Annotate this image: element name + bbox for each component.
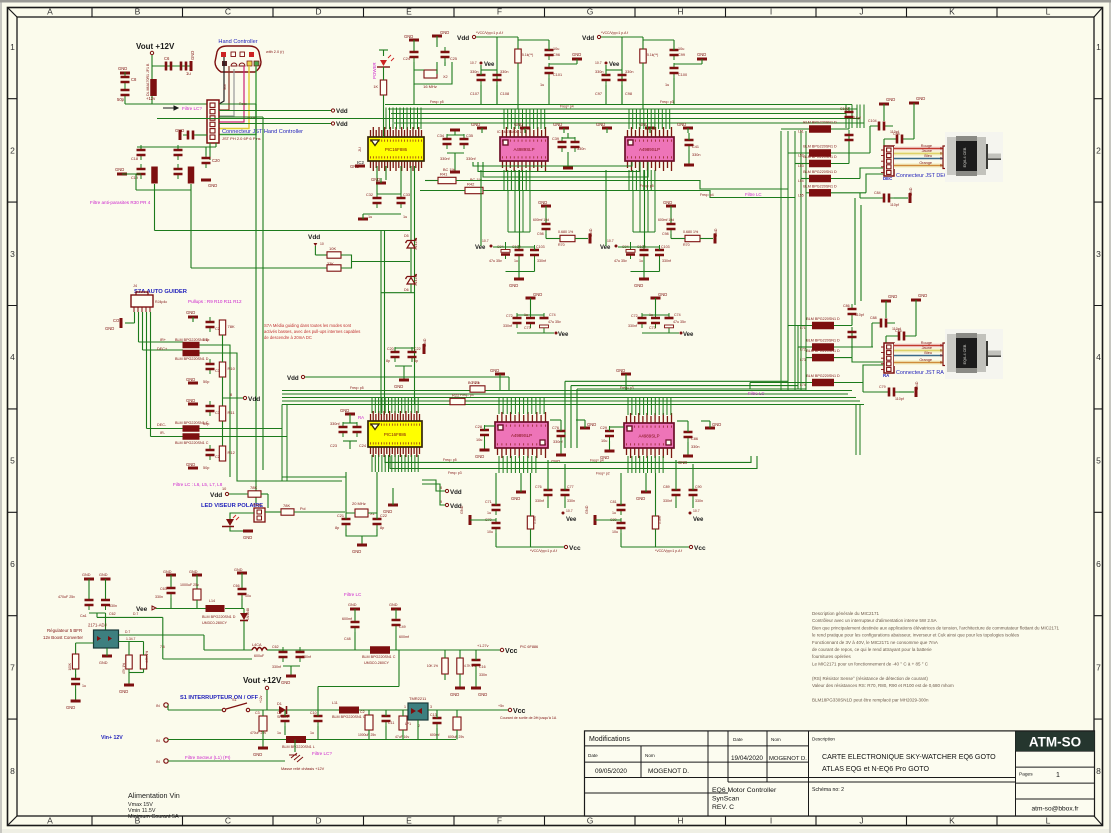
svg-text:100K: 100K <box>68 662 72 670</box>
svg-text:GND: GND <box>585 505 589 514</box>
wire <box>143 669 145 673</box>
svg-text:C22: C22 <box>414 347 421 351</box>
wire verticals below IC2 to clusters <box>508 190 530 232</box>
svg-text:S7A Média guiding dans toutes: S7A Média guiding dans toutes les modes … <box>264 323 352 328</box>
wire <box>428 709 508 711</box>
resistor R8 <box>327 265 341 271</box>
wire <box>508 231 530 233</box>
wire <box>219 103 256 105</box>
capacitor C25 <box>444 47 446 62</box>
svg-text:L72: L72 <box>800 348 806 352</box>
svg-text:C32: C32 <box>366 193 373 197</box>
svg-text:Vdd: Vdd <box>248 396 260 403</box>
wire <box>872 323 895 347</box>
svg-text:C22: C22 <box>380 514 387 518</box>
capacitor C18 <box>140 145 142 160</box>
svg-text:6: 6 <box>10 559 15 569</box>
svg-text:C76: C76 <box>535 485 542 489</box>
svg-text:C89: C89 <box>663 485 670 489</box>
svg-text:C86: C86 <box>843 304 850 308</box>
wire <box>621 546 689 548</box>
capacitor C28m <box>484 425 486 440</box>
svg-text:600mf: 600mf <box>430 733 439 737</box>
wire <box>420 190 465 192</box>
ferrite L10 <box>206 605 225 612</box>
capacitor C70 <box>495 518 497 533</box>
power flag Vdd <box>472 35 475 38</box>
svg-text:2: 2 <box>10 145 15 155</box>
capacitor C76m <box>560 426 562 441</box>
svg-text:GND: GND <box>340 408 349 413</box>
svg-text:19/04/2020: 19/04/2020 <box>731 755 763 762</box>
ferrite L3 vertical <box>150 79 157 96</box>
svg-text:GND: GND <box>352 549 361 554</box>
svg-text:C101: C101 <box>553 73 562 77</box>
svg-text:C103: C103 <box>536 245 545 249</box>
power flag Vcc <box>689 545 692 548</box>
ferrite L55 <box>809 189 831 197</box>
svg-text:330n: 330n <box>595 70 603 74</box>
wire <box>128 642 130 656</box>
svg-text:C76: C76 <box>895 329 902 333</box>
wire <box>136 189 191 191</box>
svg-text:110pf: 110pf <box>855 313 864 317</box>
svg-text:GND: GND <box>616 368 625 373</box>
wire <box>282 476 346 478</box>
capacitor C109 <box>848 107 850 122</box>
capacitor C76b <box>547 485 549 500</box>
svg-text:GND: GND <box>99 573 108 577</box>
wire <box>517 332 554 334</box>
wire <box>750 382 812 384</box>
svg-text:D: D <box>315 7 321 17</box>
svg-text:5.1k(**): 5.1k(**) <box>647 53 658 57</box>
wire <box>848 122 850 129</box>
motor driver IC2 A4989 <box>503 127 546 171</box>
wire <box>798 346 812 348</box>
svg-text:A: A <box>47 7 53 17</box>
svg-text:MOGENOT D.: MOGENOT D. <box>648 768 689 775</box>
ground <box>388 504 398 507</box>
ground <box>909 193 912 203</box>
wire <box>384 231 386 416</box>
wire <box>414 166 416 405</box>
power flag Vdd <box>243 396 246 399</box>
diode D1 <box>279 706 286 714</box>
wire <box>395 630 397 650</box>
svg-text:330n: 330n <box>479 673 487 677</box>
ground <box>188 382 198 385</box>
capacitor C6 <box>161 65 176 67</box>
resistor R22 <box>450 398 465 404</box>
wire box pin1 to L4CA <box>119 634 205 636</box>
wire <box>265 511 281 513</box>
svg-text:BLM BPG220SN1 D: BLM BPG220SN1 D <box>803 145 837 149</box>
svg-text:L74: L74 <box>800 383 806 387</box>
svg-text:C107: C107 <box>470 92 479 96</box>
svg-text:10.7: 10.7 <box>595 61 602 65</box>
ground <box>580 427 590 430</box>
wire risers below mid bus right end <box>856 405 860 456</box>
svg-text:330nf: 330nf <box>330 422 340 426</box>
capacitor C79 <box>884 391 899 393</box>
svg-text:C13: C13 <box>430 713 437 717</box>
svg-text:PIC16F886: PIC16F886 <box>385 147 408 152</box>
svg-text:Vout +12V: Vout +12V <box>243 676 282 685</box>
capacitor C16 <box>475 655 477 670</box>
svg-text:JST PH 2.0 6P 6 Pins: JST PH 2.0 6P 6 Pins <box>222 136 261 141</box>
svg-text:L54: L54 <box>798 179 804 183</box>
ground <box>423 344 426 354</box>
ground <box>188 316 198 319</box>
svg-text:K: K <box>949 816 955 826</box>
svg-text:C88: C88 <box>870 316 877 320</box>
svg-text:C48: C48 <box>344 637 351 641</box>
svg-text:GND: GND <box>677 122 686 127</box>
capacitor C99 <box>673 45 675 60</box>
wire <box>318 686 399 688</box>
wire top pins of IC1 <box>386 108 421 130</box>
ground <box>526 297 536 300</box>
wire <box>282 390 852 392</box>
svg-text:C72: C72 <box>631 314 638 318</box>
svg-text:1u: 1u <box>665 83 669 87</box>
capacitor C7 <box>176 65 191 67</box>
svg-text:C10: C10 <box>310 711 317 715</box>
power flag Vee <box>562 512 565 515</box>
capacitor C41 <box>688 135 690 150</box>
wire <box>146 312 148 429</box>
svg-text:Filtre LC?: Filtre LC? <box>182 106 202 111</box>
svg-text:Jaune: Jaune <box>922 149 932 153</box>
resistor R11 <box>219 406 225 421</box>
capacitor C107 <box>480 70 482 85</box>
svg-text:330n: 330n <box>695 499 703 503</box>
svg-text:C73: C73 <box>649 326 656 330</box>
svg-text:Filtre LC: Filtre LC <box>745 192 762 197</box>
svg-text:C99: C99 <box>678 53 685 57</box>
svg-text:G: G <box>587 816 594 826</box>
svg-text:L11: L11 <box>332 701 338 705</box>
svg-text:*VCC/Vpp=1 p.A f: *VCC/Vpp=1 p.A f <box>476 31 503 35</box>
chassis ground <box>289 753 303 762</box>
wire <box>105 613 107 630</box>
capacitor C17 <box>177 145 179 160</box>
svg-text:K: K <box>949 7 955 17</box>
ground <box>455 687 465 690</box>
wires risers to DEC network <box>781 131 806 391</box>
svg-text:Connecteur JST DEC: Connecteur JST DEC <box>896 173 948 179</box>
svg-text:D.7: D.7 <box>125 630 130 634</box>
svg-text:Hand Controller: Hand Controller <box>218 39 257 45</box>
svg-text:PIC 6F886: PIC 6F886 <box>520 645 538 649</box>
svg-text:L71: L71 <box>800 326 806 330</box>
wire <box>410 248 412 277</box>
svg-text:B: B <box>940 157 942 161</box>
svg-text:4: 4 <box>10 352 15 362</box>
svg-text:GND: GND <box>888 294 897 299</box>
capacitor C98s <box>545 219 547 234</box>
svg-text:1u: 1u <box>403 215 407 219</box>
arrow filtre annotation <box>163 106 178 110</box>
svg-text:09/05/2020: 09/05/2020 <box>595 768 627 775</box>
motor driver IC5 A4989 bottom <box>498 412 546 458</box>
svg-text:GND: GND <box>253 752 262 757</box>
resistor R52 <box>140 655 146 669</box>
svg-text:C34: C34 <box>437 134 444 138</box>
svg-text:330n: 330n <box>155 595 163 599</box>
svg-text:R70: R70 <box>558 243 565 247</box>
svg-text:5.1k(**): 5.1k(**) <box>522 53 533 57</box>
wire <box>655 473 657 516</box>
wire <box>806 192 809 194</box>
svg-text:Bien que principalement destin: Bien que principalement destinée aux app… <box>812 625 1059 630</box>
motor wires RA <box>894 343 944 366</box>
svg-text:GND: GND <box>514 122 523 127</box>
ground <box>188 467 198 470</box>
capacitor 1u b <box>530 313 532 328</box>
wire <box>283 649 300 651</box>
svg-text:DEC: DEC <box>883 176 893 181</box>
svg-text:8p: 8p <box>414 359 418 363</box>
svg-text:47u 35v: 47u 35v <box>614 259 627 263</box>
capacitor 47uF b <box>543 313 545 333</box>
ground <box>71 700 81 703</box>
svg-text:*VCC/Vpp=1 p.A f: *VCC/Vpp=1 p.A f <box>601 31 628 35</box>
svg-text:BLM BPG220SN1 D: BLM BPG220SN1 D <box>806 349 840 353</box>
hand controller wires down <box>219 57 224 104</box>
svg-text:B: B <box>940 147 942 151</box>
svg-text:470uF 25v: 470uF 25v <box>58 595 75 599</box>
resistor R70 sense <box>685 235 700 241</box>
wire bottom pins IC4 <box>372 455 418 472</box>
svg-text:330nf: 330nf <box>662 259 671 263</box>
wire <box>496 546 564 548</box>
ground <box>286 675 296 678</box>
svg-text:GND: GND <box>348 603 357 607</box>
svg-text:+5v: +5v <box>498 704 504 708</box>
svg-text:1u: 1u <box>277 731 281 735</box>
svg-text:Vee: Vee <box>683 332 694 338</box>
svg-text:10u: 10u <box>678 47 684 51</box>
svg-text:A4989SLP: A4989SLP <box>511 433 532 438</box>
wire <box>88 579 90 600</box>
wire <box>642 332 679 334</box>
svg-text:C39: C39 <box>552 137 559 141</box>
ground <box>469 515 472 525</box>
ground <box>714 234 717 244</box>
svg-text:GND: GND <box>663 200 672 205</box>
power flag Vcc <box>500 648 503 651</box>
svg-text:8p: 8p <box>335 526 339 530</box>
ferrite L72 <box>812 343 834 351</box>
svg-text:GND: GND <box>587 422 596 427</box>
ground <box>683 127 693 130</box>
svg-text:GND: GND <box>115 167 124 172</box>
svg-text:C29: C29 <box>600 426 607 430</box>
svg-text:50p: 50p <box>117 97 125 102</box>
svg-text:GND: GND <box>189 570 198 574</box>
ferrite L51 <box>809 125 831 133</box>
svg-text:L: L <box>1046 7 1051 17</box>
svg-text:A: A <box>47 816 53 826</box>
svg-text:330nf: 330nf <box>503 324 512 328</box>
zener diode D5 <box>407 242 415 249</box>
wire <box>150 312 152 437</box>
svg-text:C84: C84 <box>874 191 881 195</box>
svg-text:IN: IN <box>156 739 160 743</box>
capacitor C98 <box>892 138 907 140</box>
svg-text:Vcc: Vcc <box>513 708 526 715</box>
svg-text:BLM BPG220SN1 C: BLM BPG220SN1 C <box>175 441 209 445</box>
ground <box>514 278 524 281</box>
svg-text:F: F <box>497 816 502 826</box>
svg-text:BC 1%: BC 1% <box>443 168 455 172</box>
power flag Vee <box>605 62 608 65</box>
resistor R14 <box>281 509 294 515</box>
wire <box>788 152 809 154</box>
svg-text:ATM-SO: ATM-SO <box>1029 735 1081 750</box>
svg-text:G: G <box>587 7 594 17</box>
RJ12 jack connector <box>131 295 153 307</box>
capacitor C60 <box>88 595 90 610</box>
svg-text:GND: GND <box>678 460 687 465</box>
capacitor C89 <box>675 485 677 500</box>
wire <box>395 347 415 349</box>
wire <box>352 261 411 263</box>
capacitor C98b <box>621 70 623 85</box>
svg-text:600uF 25v: 600uF 25v <box>448 735 464 739</box>
svg-text:L4CA: L4CA <box>252 643 262 647</box>
svg-text:8: 8 <box>10 766 15 776</box>
svg-text:7: 7 <box>10 662 15 672</box>
svg-text:Filtre LC : L6, L5, L7, L8: Filtre LC : L6, L5, L7, L8 <box>173 482 223 487</box>
wire <box>547 460 549 490</box>
wire <box>456 710 458 717</box>
capacitor C90 <box>692 485 694 500</box>
connector LED 2pin <box>254 508 265 522</box>
svg-text:C35: C35 <box>466 134 473 138</box>
svg-text:BLM18PG330SN1D peut être rempl: BLM18PG330SN1D peut être remplacé par MH… <box>812 697 929 702</box>
ferrite L30 vertical <box>151 167 158 184</box>
ferrite L31 vertical <box>188 167 195 184</box>
capacitor 1u <box>518 245 520 260</box>
resistor R12 <box>219 446 225 461</box>
ground <box>641 491 651 494</box>
wire <box>168 760 285 762</box>
capacitor C13 <box>436 713 438 728</box>
svg-text:1N5248: 1N5248 <box>246 608 250 620</box>
wire <box>361 536 363 545</box>
wire <box>670 234 672 239</box>
svg-text:78K: 78K <box>250 485 257 490</box>
wire <box>75 689 77 701</box>
wire <box>633 231 655 233</box>
zener diode D6 <box>407 278 415 285</box>
power flag Vdd <box>597 35 600 38</box>
svg-text:GND: GND <box>478 692 487 697</box>
svg-text:A4989SLP: A4989SLP <box>514 147 535 152</box>
svg-text:GND: GND <box>118 66 127 71</box>
svg-text:J: J <box>859 7 863 17</box>
wire <box>196 600 198 609</box>
wire risers right of mid bus <box>846 105 864 129</box>
wire bottom pins IC2 <box>504 170 530 190</box>
svg-text:GND: GND <box>916 96 925 101</box>
svg-text:C63: C63 <box>160 587 167 591</box>
svg-text:GND: GND <box>596 122 605 127</box>
svg-text:Vee: Vee <box>609 62 620 68</box>
svg-text:C97: C97 <box>595 92 602 96</box>
svg-text:GND: GND <box>533 292 542 297</box>
svg-text:BLM BPG220SN1 D: BLM BPG220SN1 D <box>175 357 209 361</box>
svg-text:S1: S1 <box>232 698 237 702</box>
wire <box>564 381 566 448</box>
svg-text:TMR2211: TMR2211 <box>409 696 427 701</box>
wire sense drop <box>644 170 646 247</box>
svg-text:Vdd: Vdd <box>582 35 594 42</box>
power flag Vdd above bus <box>301 375 304 378</box>
wire <box>884 139 914 146</box>
svg-text:GND: GND <box>634 283 643 288</box>
capacitor 47uF b <box>668 313 670 333</box>
svg-text:GND: GND <box>886 97 895 102</box>
svg-text:J: J <box>859 816 863 826</box>
svg-text:C86: C86 <box>691 437 698 441</box>
svg-text:10.7: 10.7 <box>482 239 489 243</box>
wire <box>447 152 464 154</box>
power flag Vee b <box>555 332 558 335</box>
svg-text:BLM BPG220SN1 C: BLM BPG220SN1 C <box>332 715 366 719</box>
svg-text:EQ6 Motor Controller: EQ6 Motor Controller <box>712 787 777 794</box>
svg-text:C41: C41 <box>692 145 699 149</box>
power flag Vcc <box>564 545 567 548</box>
wire <box>476 37 497 105</box>
svg-text:Description: Description <box>812 737 835 742</box>
stepper motor RA <box>945 329 1003 379</box>
svg-text:BLM BPG220SN1 L: BLM BPG220SN1 L <box>282 745 315 749</box>
svg-text:330n: 330n <box>109 604 117 608</box>
svg-text:330n: 330n <box>470 70 478 74</box>
svg-text:GND: GND <box>350 164 359 169</box>
svg-text:C33: C33 <box>403 193 410 197</box>
svg-text:R12: R12 <box>228 450 236 455</box>
wire vcc node <box>445 649 500 651</box>
wire <box>317 710 319 716</box>
ferrite L74 <box>812 379 834 387</box>
ground <box>559 127 569 130</box>
svg-text:Vdd: Vdd <box>308 234 320 241</box>
wire <box>605 65 607 75</box>
wire long from filter to diodes <box>155 230 411 232</box>
svg-text:Contrôleur avec un interrupteu: Contrôleur avec un interrupteur d'alimen… <box>812 618 937 623</box>
svg-text:C98: C98 <box>625 92 632 96</box>
title block grid <box>585 731 1095 816</box>
svg-text:Modifications: Modifications <box>589 736 630 743</box>
svg-text:Le MIC2171 pour un fonctionnem: Le MIC2171 pour un fonctionnement de -40… <box>812 661 929 666</box>
wire <box>390 649 445 651</box>
wire <box>284 710 286 716</box>
svg-text:Freq= p3: Freq= p3 <box>448 471 462 475</box>
ground <box>541 205 551 208</box>
capacitor C2 electrolytic <box>365 715 373 730</box>
wire bus left end drops <box>282 405 287 482</box>
svg-text:GND: GND <box>66 705 75 710</box>
ground <box>621 373 631 376</box>
wire <box>410 284 412 293</box>
svg-text:47u 35v: 47u 35v <box>548 320 561 324</box>
svg-text:RA: RA <box>358 415 364 420</box>
